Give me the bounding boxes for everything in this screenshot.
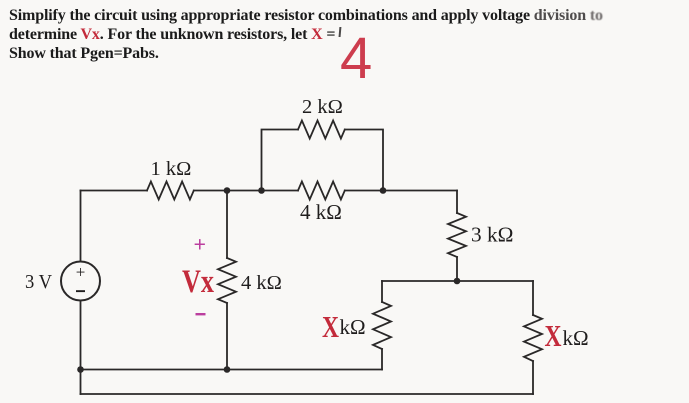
svg-text:3 V: 3 V (25, 271, 53, 293)
resistor R 2k zigzag (298, 121, 345, 139)
wire 2k branch (262, 130, 299, 191)
source minus sign (76, 290, 85, 292)
wire top left horizontal (81, 190, 148, 192)
svg-text:+: + (194, 232, 207, 257)
svg-text:X: X (545, 318, 562, 353)
problem statement text (9, 7, 669, 63)
svg-text:Vx: Vx (182, 264, 214, 300)
svg-text:1 kΩ: 1 kΩ (151, 158, 192, 180)
svg-text:4 kΩ: 4 kΩ (241, 272, 282, 294)
resistor R 4k horizontal zigzag (298, 182, 345, 200)
svg-text:2 kΩ: 2 kΩ (302, 96, 343, 118)
resistor R 3k zigzag (448, 213, 466, 257)
handwritten mark 4 (340, 25, 372, 92)
wire left X branch top (381, 281, 383, 302)
wire 3k bottom (456, 257, 458, 281)
svg-text:kΩ: kΩ (563, 326, 589, 350)
svg-text:X: X (322, 309, 339, 344)
wire right vertical to 3k (456, 191, 458, 214)
wire bottom first (81, 369, 383, 371)
node at R1k/Vx junction (224, 187, 231, 194)
wire middle horizontal (382, 280, 533, 282)
svg-text:4 kΩ: 4 kΩ (300, 200, 342, 224)
wire top middle (194, 190, 298, 192)
wire 2k branch right (345, 130, 383, 191)
node Vx bottom (224, 366, 231, 373)
node below 3k (454, 278, 461, 285)
node source bottom (77, 366, 84, 373)
resistor X left zigzag (373, 302, 391, 349)
wire Vx branch top (226, 191, 228, 259)
node at 2k branch left (258, 187, 265, 194)
node at 2k branch right (380, 187, 387, 194)
svg-text:3 kΩ: 3 kΩ (471, 223, 513, 247)
svg-text:kΩ: kΩ (340, 315, 366, 339)
wire right X branch bottom (532, 361, 534, 394)
resistor X right zigzag (524, 315, 542, 361)
resistor R 1k zigzag (147, 182, 194, 200)
wire top right (345, 190, 457, 192)
wire bottom second (81, 393, 534, 395)
label Vx minus (196, 313, 206, 315)
wire Vx branch bottom (226, 303, 228, 370)
wire right X branch top (532, 281, 534, 315)
wire left vertical bottom (80, 301, 82, 395)
voltage source V1 circle (61, 262, 100, 301)
wire left vertical top (80, 191, 82, 262)
svg-text:+: + (76, 263, 86, 282)
resistor R 4k vertical (Vx) zigzag (218, 258, 236, 303)
wire left X branch bottom (381, 349, 383, 370)
